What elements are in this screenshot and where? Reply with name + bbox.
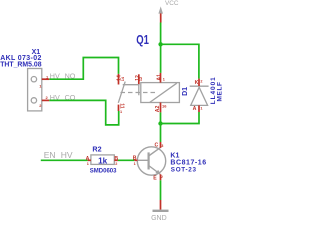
node junction collector bus [158, 121, 162, 125]
svg-text:C: C [155, 142, 159, 148]
relay contact pin 12 [135, 74, 143, 84]
svg-text:R2: R2 [92, 144, 101, 153]
svg-text:1: 1 [134, 162, 136, 166]
relay contact NC terminal [123, 85, 139, 96]
svg-text:2: 2 [161, 175, 163, 179]
svg-text:D1: D1 [182, 87, 189, 96]
wire diode anode down to bus [161, 112, 200, 124]
svg-text:1: 1 [87, 162, 89, 166]
transistor K1 body [137, 147, 165, 175]
svg-text:SOT-23: SOT-23 [171, 166, 197, 173]
svg-text:1: 1 [163, 77, 165, 81]
svg-text:A1: A1 [156, 74, 162, 81]
relay coil pin A2 [155, 103, 167, 113]
svg-text:SMD0603: SMD0603 [90, 168, 117, 174]
relay contact pin 11 [118, 103, 124, 114]
diode pin A [193, 105, 203, 112]
wire VCC rail to coil A1 [160, 23, 162, 73]
transistor pin E [153, 174, 163, 181]
connector X1 body [28, 69, 42, 111]
diode pin K [195, 79, 203, 87]
svg-text:VCC: VCC [165, 0, 179, 7]
resistor R2 body [91, 155, 114, 165]
ground symbol GND [151, 200, 168, 222]
svg-text:GND: GND [151, 215, 167, 222]
svg-text:BC817-16: BC817-16 [170, 159, 206, 166]
svg-text:B: B [133, 156, 137, 162]
svg-text:MELF: MELF [217, 81, 224, 101]
svg-text:16: 16 [162, 103, 167, 108]
resistor pin A [86, 156, 91, 166]
wire junction to diode cathode [161, 44, 199, 78]
svg-text:12: 12 [139, 77, 143, 81]
svg-text:1: 1 [200, 106, 202, 110]
svg-text:Q1: Q1 [136, 34, 149, 48]
connector X1 labels [0, 49, 42, 68]
diode D1 body [190, 86, 209, 105]
svg-text:2: 2 [200, 80, 202, 84]
relay contact pin 14 [117, 74, 126, 85]
svg-text:3: 3 [161, 144, 163, 148]
svg-text:K: K [195, 80, 199, 86]
pin X1.1 [39, 74, 49, 88]
relay linkage dashed [121, 92, 157, 94]
diode D1 labels [182, 76, 224, 104]
svg-text:A: A [193, 106, 197, 112]
svg-text:A2: A2 [155, 105, 161, 112]
transistor pin B [133, 156, 138, 167]
svg-text:11: 11 [118, 103, 124, 109]
power symbol VCC [158, 0, 178, 23]
svg-text:2: 2 [115, 162, 117, 166]
wire net HV_CO [49, 100, 118, 125]
transistor K1 labels [170, 153, 206, 174]
resistor pin B [114, 156, 118, 166]
svg-text:THT_RM5.08: THT_RM5.08 [0, 61, 42, 68]
svg-text:HV: HV [61, 150, 73, 160]
relay coil Q1 body [141, 83, 180, 103]
svg-text:EN: EN [44, 150, 56, 160]
wire net HV_NO [49, 58, 118, 80]
wire R2 to base [118, 159, 134, 161]
relay contact blade [118, 82, 125, 103]
wire coil A2 to collector [160, 112, 162, 142]
node junction VCC branch [158, 42, 162, 46]
svg-text:E: E [153, 175, 157, 181]
relay coil pin A1 [156, 73, 165, 83]
wire net EN_HV [41, 159, 88, 161]
pin X1.2 [39, 95, 49, 108]
transistor pin C [155, 142, 164, 148]
resistor R2 labels [90, 144, 117, 174]
wire emitter to GND [160, 180, 162, 200]
svg-text:1: 1 [120, 110, 122, 114]
